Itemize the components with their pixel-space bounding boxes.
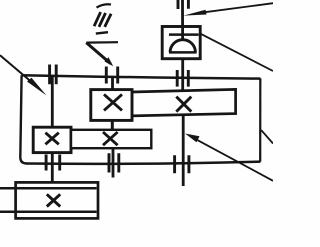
label III overbar	[97, 4, 112, 7]
label III underline	[96, 32, 108, 33]
gear cross mark middle	[103, 132, 118, 145]
shaft D middle segment	[181, 52, 184, 91]
bearing pair shaft D top	[178, 0, 188, 9]
motor dome chord	[169, 51, 197, 54]
shaft B upper segment	[111, 77, 114, 91]
label III strokes	[94, 12, 111, 27]
bearing pair shaft D bottom wall	[175, 155, 189, 173]
bearing pair shaft B top wall	[106, 67, 117, 84]
housing bottom wall	[26, 162, 260, 164]
gear rect on shaft B (middle wide gear)	[71, 130, 151, 148]
shaft B lower segment	[112, 148, 115, 178]
motor inner bar	[169, 33, 199, 36]
housing left wall	[20, 75, 26, 163]
bearing pair shaft A bottom wall	[46, 155, 60, 171]
shaft D lower segment	[182, 116, 185, 186]
shaft D top segment	[181, 0, 184, 40]
housing right wall	[259, 78, 261, 161]
leader line to housing right wall	[261, 130, 273, 143]
gear box1 on shaft B	[91, 90, 132, 121]
gear cross mark box1	[104, 94, 122, 110]
leader to shaft B bearing (diagonal with arrow)	[86, 43, 110, 64]
shaft A lower segment	[51, 152, 54, 183]
motor dome	[170, 40, 195, 53]
gear cross mark bottom	[47, 194, 60, 206]
gear rect on shaft D (upper wide gear)	[132, 89, 236, 116]
output shaft sleeve top line	[0, 187, 97, 190]
leader to shaft B bearing (horizontal bar)	[86, 41, 118, 44]
shaft B middle segment	[111, 120, 114, 130]
gear cross mark upper	[176, 97, 191, 112]
bottom big gear outer rect	[16, 182, 98, 218]
output shaft sleeve bottom line	[0, 211, 97, 214]
motor shaft inside	[181, 27, 184, 40]
bearing pair shaft B bottom wall	[109, 153, 119, 172]
leader line to motor box corner	[201, 34, 273, 71]
housing top wall	[21, 75, 260, 78]
motor box U1	[162, 27, 200, 59]
gear box2 on shaft A	[33, 127, 71, 152]
leader from left edge with arrow	[0, 55, 38, 87]
shaft A upper segment	[51, 76, 54, 128]
long leader to shaft D with arrow	[196, 139, 273, 181]
leader to motor shaft top with arrow	[205, 3, 273, 12]
bearing pair shaft A top wall	[50, 65, 57, 85]
bearing pair shaft D wall	[177, 70, 188, 87]
gear cross mark box2	[45, 133, 58, 145]
